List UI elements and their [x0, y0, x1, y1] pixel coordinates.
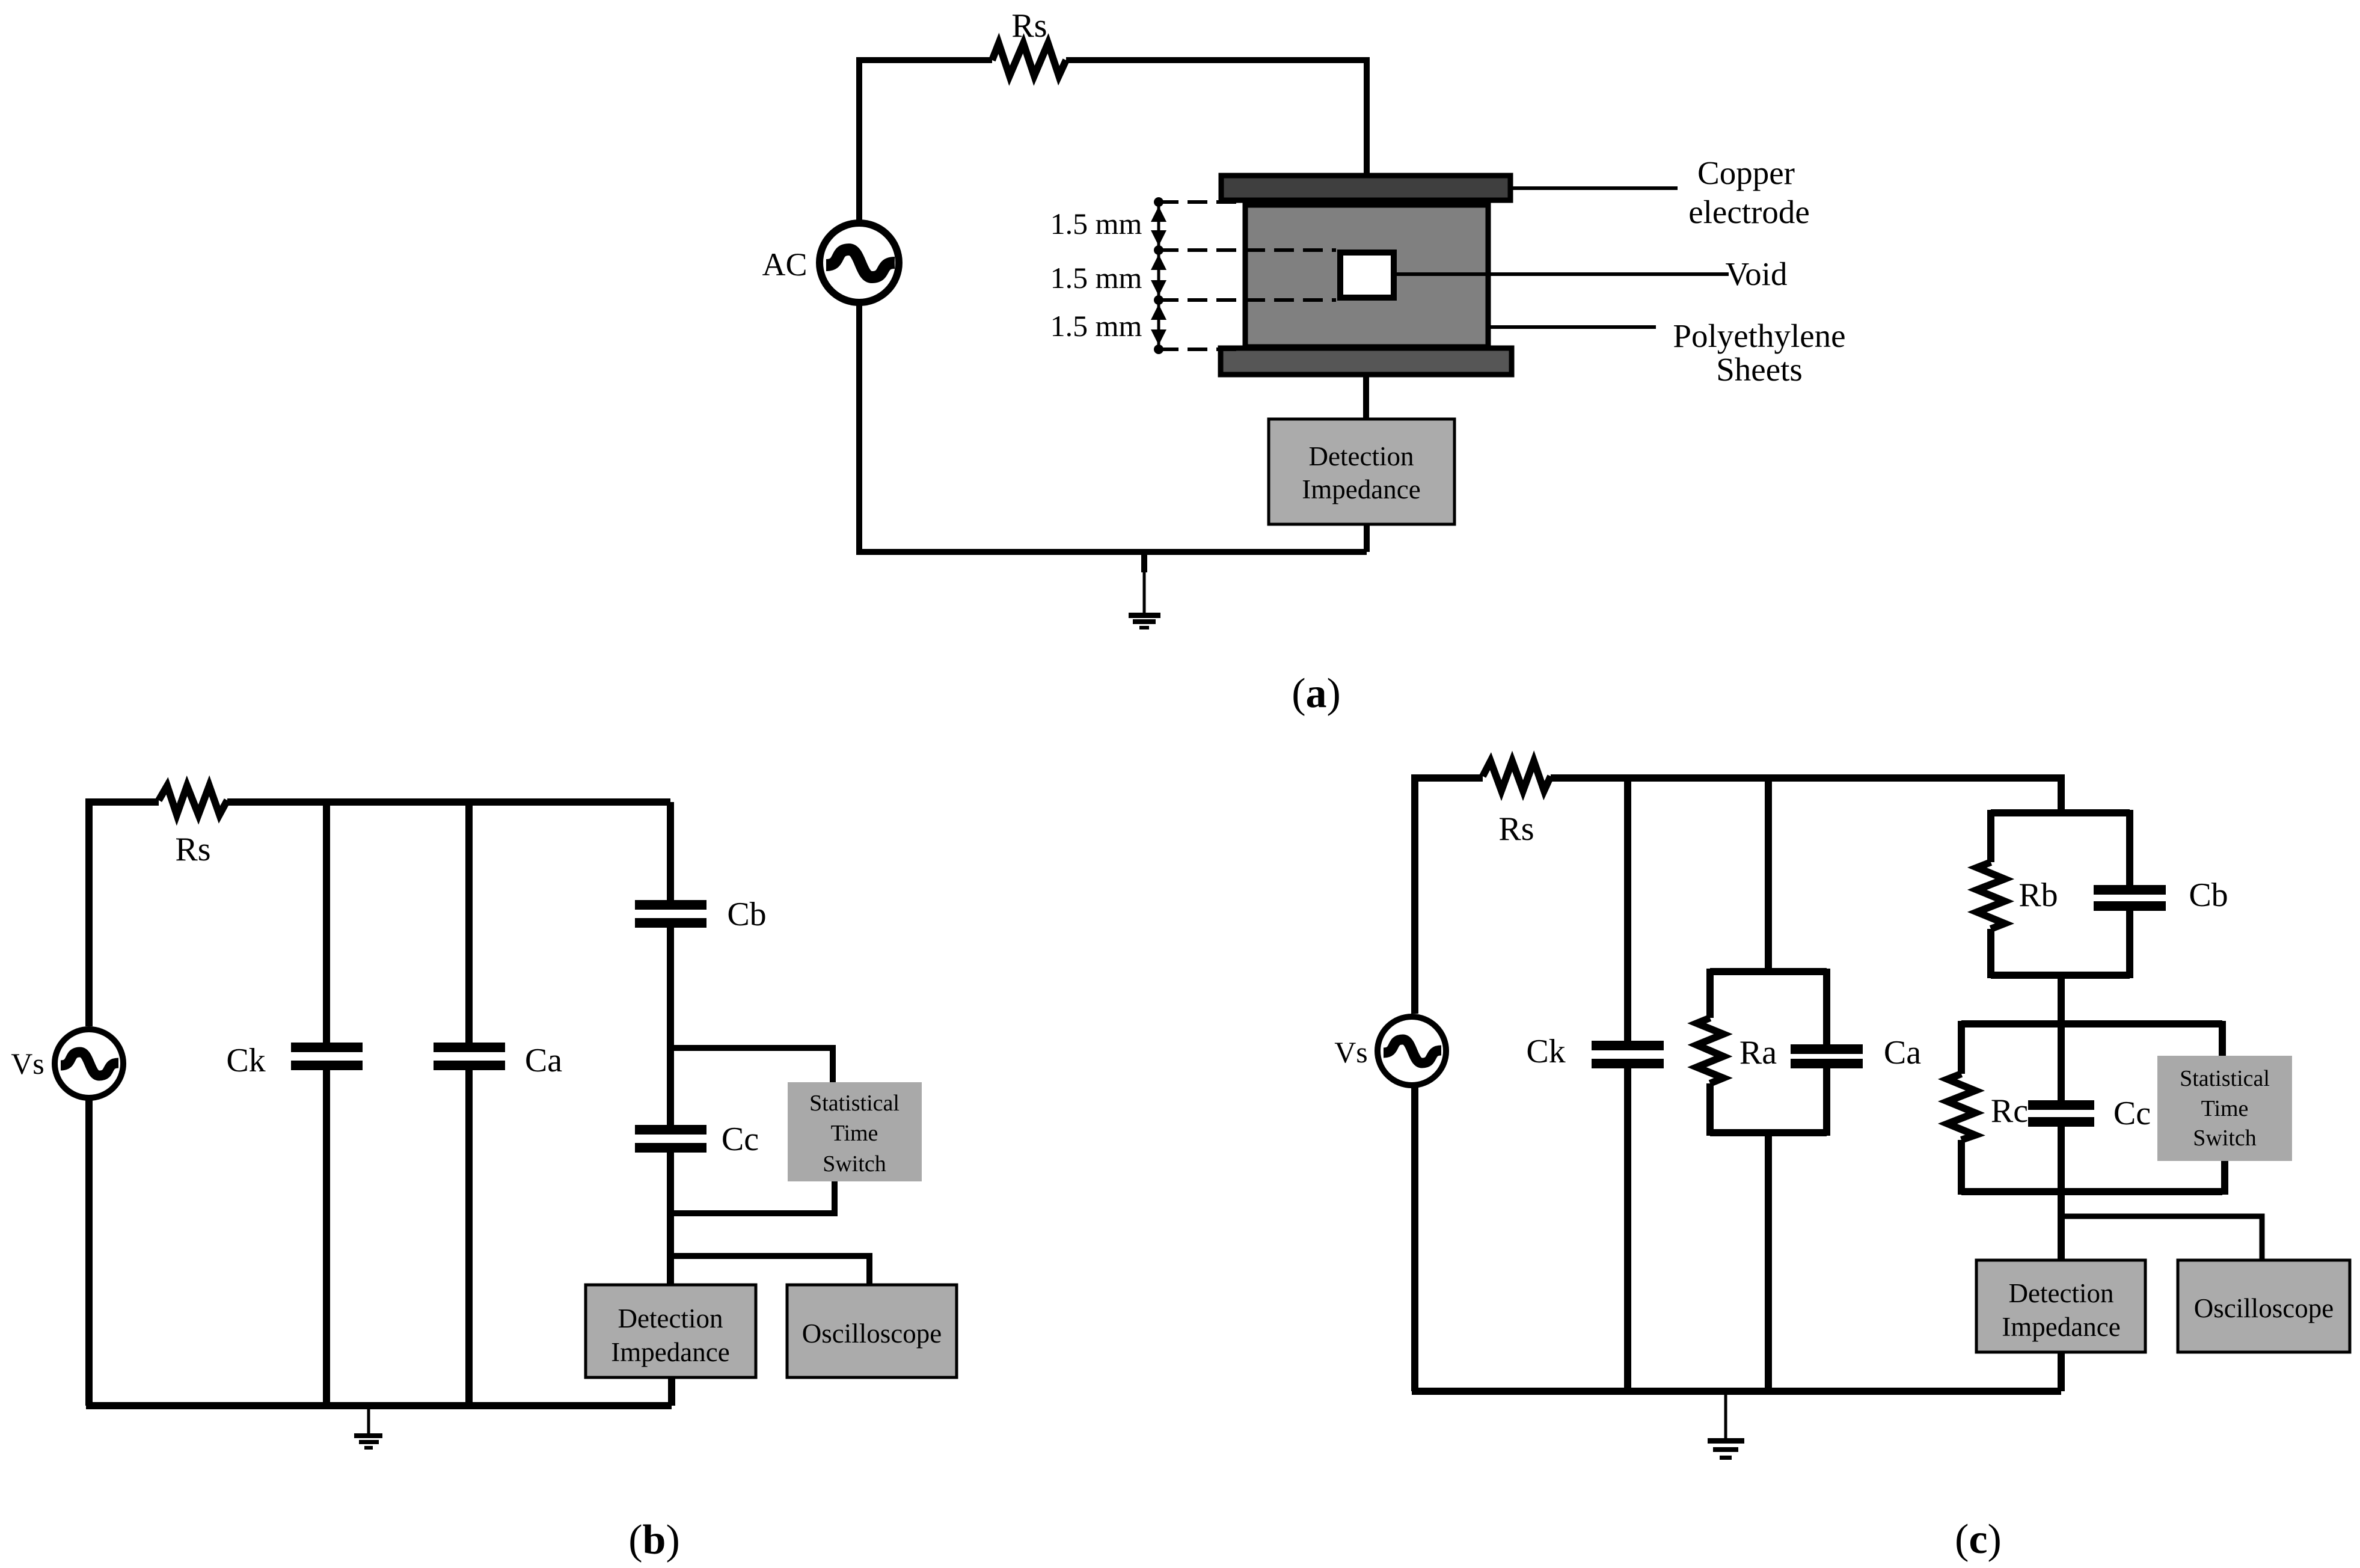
ground (a) [1129, 552, 1160, 629]
wire: bottom rail (a) [856, 549, 1367, 555]
wire: top rail (c) [1551, 778, 2061, 813]
detection impedance box (c) [1976, 1260, 2145, 1352]
wire: tap to oscilloscope (c) [2061, 1216, 2262, 1260]
Rc loop top (c) [1961, 1020, 2222, 1027]
wire: Cc center feed lower (c) [2058, 1127, 2065, 1260]
svg-text:Statistical: Statistical [809, 1091, 900, 1116]
svg-text:Sheets: Sheets [1716, 351, 1803, 388]
wire: Rc left side lower (c) [1958, 1140, 1965, 1195]
wire: Ra left side upper (c) [1706, 969, 1714, 1018]
detection impedance box (a) [1269, 419, 1454, 524]
dashed line void bottom level [1159, 298, 1336, 302]
wire: Vs top to Rs left (b) [89, 802, 159, 1026]
svg-text:Vs: Vs [1334, 1035, 1368, 1069]
capacitor Ck (c) [1592, 1041, 1664, 1050]
Rb loop top (c) [1991, 809, 2130, 816]
wire: tap to switch top (b) [670, 1048, 833, 1082]
wire: Rb feed to Rc loop (c) [2058, 975, 2065, 1024]
svg-text:Time: Time [831, 1121, 878, 1146]
svg-text:Time: Time [2201, 1096, 2249, 1121]
oscilloscope box (c) [2178, 1260, 2350, 1352]
wire: Ck branch lower (b) [323, 1070, 330, 1406]
svg-text:electrode: electrode [1688, 194, 1810, 230]
Rb loop bottom (c) [1991, 972, 2130, 979]
capacitor Ck (b) [291, 1043, 363, 1052]
void square [1340, 253, 1394, 298]
capacitor Cb (c) [2094, 885, 2166, 895]
wire: Rb left side lower (c) [1987, 929, 1994, 978]
polyethylene block [1245, 205, 1488, 347]
wire: Vs bottom to bottom rail (c) [1411, 1085, 1418, 1391]
wire: right branch middle (b) [667, 928, 674, 1125]
dashed line poly bottom level [1159, 348, 1240, 351]
svg-text:Vs: Vs [11, 1047, 44, 1080]
svg-text:Cb: Cb [2189, 877, 2228, 914]
svg-text:Oscilloscope: Oscilloscope [2194, 1293, 2334, 1323]
svg-text:Polyethylene: Polyethylene [1673, 317, 1845, 354]
statistical time switch box (c) [2157, 1056, 2292, 1161]
svg-text:Ck: Ck [1526, 1033, 1565, 1070]
svg-text:(c): (c) [1955, 1516, 2002, 1563]
capacitor Ca (b) [434, 1043, 505, 1052]
capacitor Ca (c) [1791, 1044, 1863, 1054]
pointer line polyethylene [1491, 325, 1656, 329]
svg-text:(a): (a) [1292, 670, 1341, 717]
AC source circle [820, 223, 899, 302]
wire: switch bottom tap back (b) [670, 1181, 835, 1213]
resistor Rb (c) [1977, 862, 2005, 929]
Vs sine (b) [61, 1052, 118, 1076]
wire: Ck branch upper (b) [323, 802, 330, 1043]
wire: Ca right side upper (c) [1823, 969, 1830, 1044]
Vs sine (c) [1384, 1040, 1441, 1063]
pointer line copper electrode [1513, 186, 1678, 190]
dashed line top (poly top level) [1159, 200, 1242, 204]
Ra-Ca loop top (c) [1710, 968, 1827, 975]
wire: Cc center feed upper (c) [2058, 1024, 2065, 1100]
svg-text:Detection: Detection [2009, 1278, 2114, 1308]
wire: Ra-Ca feed upper (c) [1765, 778, 1772, 972]
wire: detection box to bottom rail (b) [668, 1377, 675, 1406]
wire: right branch lower (b) [667, 1153, 674, 1285]
ground (c) [1708, 1391, 1744, 1460]
resistor Rs (a) [992, 43, 1066, 76]
wire: Ca branch lower (b) [465, 1070, 473, 1406]
svg-text:1.5 mm: 1.5 mm [1050, 309, 1142, 343]
wire: bottom bar to detection box [1363, 375, 1369, 419]
wire: Vs top to Rs left (c) [1415, 778, 1483, 1014]
copper electrode top bar [1221, 176, 1510, 200]
wire: switch right side lower (c) [2221, 1161, 2228, 1195]
svg-text:1.5 mm: 1.5 mm [1050, 207, 1142, 240]
wire: Cb right side upper (c) [2126, 810, 2133, 885]
wire: Rb left side upper (c) [1987, 810, 1994, 862]
detection impedance box (b) [586, 1285, 756, 1377]
statistical time switch box (b) [788, 1082, 922, 1181]
Rc loop bottom (c) [1961, 1188, 2222, 1195]
wire: top rail (b) [227, 798, 670, 806]
wire: Ra-Ca feed lower (c) [1765, 1133, 1772, 1391]
svg-text:Rb: Rb [2018, 877, 2058, 914]
capacitor Cc (c) [2028, 1100, 2094, 1110]
svg-text:Ca: Ca [525, 1042, 562, 1079]
svg-text:Detection: Detection [618, 1303, 723, 1334]
wire: Rc left side upper (c) [1958, 1021, 1965, 1074]
wire: switch right side upper (c) [2219, 1021, 2226, 1056]
svg-text:Impedance: Impedance [611, 1337, 729, 1367]
wire: AC source top to Rs left [859, 60, 992, 222]
svg-text:Rs: Rs [1011, 7, 1047, 44]
wire: Ca right side lower (c) [1823, 1068, 1830, 1136]
wire: AC bottom to bottom rail [856, 303, 862, 552]
wire: Vs bottom to bottom rail (b) [85, 1098, 93, 1406]
pointer line void [1397, 272, 1729, 276]
svg-text:AC: AC [762, 247, 807, 283]
capacitor Cb (b) [635, 900, 706, 910]
svg-text:Void: Void [1726, 256, 1788, 292]
svg-text:Switch: Switch [823, 1151, 886, 1177]
svg-text:1.5 mm: 1.5 mm [1050, 261, 1142, 295]
Vs source circle (b) [55, 1029, 123, 1098]
wire: Ra left side lower (c) [1706, 1083, 1714, 1136]
resistor Ra (c) [1697, 1018, 1723, 1083]
svg-text:Copper: Copper [1697, 155, 1795, 191]
svg-text:Impedance: Impedance [2002, 1312, 2120, 1342]
svg-text:Rs: Rs [1498, 810, 1534, 848]
AC source sine [826, 250, 895, 277]
resistor Rs (c) [1483, 761, 1551, 791]
svg-text:Cb: Cb [727, 896, 766, 933]
svg-text:Statistical: Statistical [2180, 1066, 2270, 1091]
svg-text:Ca: Ca [1884, 1034, 1921, 1071]
svg-text:Oscilloscope: Oscilloscope [802, 1318, 942, 1349]
wire: tap to oscilloscope (b) [670, 1256, 869, 1285]
wire: Ck branch upper (c) [1624, 778, 1631, 1041]
Ra-Ca loop bottom (c) [1710, 1129, 1827, 1136]
dashed line void top level [1159, 248, 1336, 252]
wire: Ca branch upper (b) [465, 802, 473, 1043]
svg-text:(b): (b) [628, 1517, 680, 1563]
svg-text:Ra: Ra [1739, 1034, 1777, 1071]
svg-text:Cc: Cc [722, 1121, 759, 1158]
wire: bottom rail (b) [86, 1402, 672, 1409]
wire: right branch top (b) [667, 802, 674, 900]
oscilloscope box (b) [787, 1285, 957, 1377]
dimension line with arrows [1151, 197, 1166, 354]
svg-text:Rc: Rc [1991, 1092, 2028, 1130]
svg-text:Detection: Detection [1309, 441, 1414, 471]
svg-text:Impedance: Impedance [1302, 474, 1420, 504]
ground (b) [354, 1406, 382, 1450]
svg-text:Rs: Rs [175, 831, 210, 868]
svg-text:Switch: Switch [2193, 1125, 2257, 1151]
wire: bottom rail (c) [1412, 1388, 2061, 1395]
wire: detection box to bottom rail [1364, 524, 1370, 552]
wire: Ck branch lower (c) [1624, 1068, 1631, 1391]
resistor Rs (b) [159, 786, 227, 815]
svg-text:Ck: Ck [226, 1042, 265, 1079]
wire: Cb right side lower (c) [2126, 911, 2133, 978]
capacitor Cc (b) [635, 1125, 706, 1135]
wire: detection box to bottom rail (c) [2058, 1352, 2065, 1391]
svg-text:Cc: Cc [2113, 1095, 2151, 1132]
resistor Rc (c) [1948, 1074, 1975, 1140]
copper electrode bottom bar [1221, 348, 1512, 375]
wire: Rs right to top electrode [1066, 60, 1367, 176]
Vs source circle (c) [1378, 1017, 1446, 1085]
